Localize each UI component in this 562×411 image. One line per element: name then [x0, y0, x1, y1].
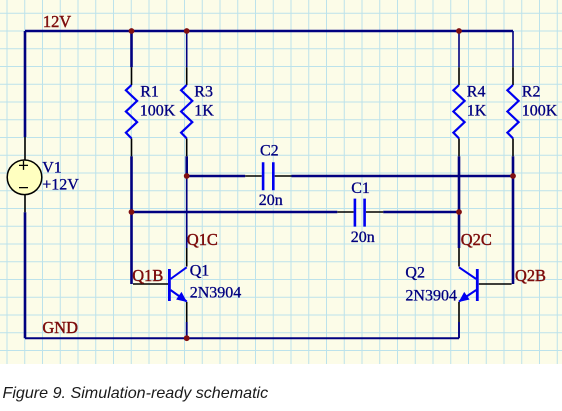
svg-text:2N3904: 2N3904 — [190, 285, 242, 302]
svg-text:R3: R3 — [194, 84, 213, 101]
svg-text:C1: C1 — [351, 180, 370, 197]
svg-text:100K: 100K — [522, 102, 558, 119]
svg-text:+12V: +12V — [42, 176, 79, 193]
svg-text:Figure 9. Simulation-ready sch: Figure 9. Simulation-ready schematic — [3, 384, 269, 402]
svg-text:R4: R4 — [467, 84, 486, 101]
svg-text:GND: GND — [42, 318, 78, 337]
svg-text:R1: R1 — [140, 84, 159, 101]
svg-text:2N3904: 2N3904 — [405, 287, 457, 304]
svg-text:Q2C: Q2C — [461, 230, 492, 249]
svg-text:Q2B: Q2B — [515, 266, 546, 285]
svg-text:100K: 100K — [140, 102, 176, 119]
svg-text:C2: C2 — [260, 142, 279, 159]
svg-text:1K: 1K — [194, 102, 214, 119]
svg-text:Q1C: Q1C — [187, 230, 218, 249]
svg-text:Q1B: Q1B — [132, 266, 163, 285]
svg-text:Q1: Q1 — [190, 263, 210, 280]
svg-text:20n: 20n — [259, 192, 283, 209]
svg-text:1K: 1K — [467, 102, 487, 119]
svg-text:R2: R2 — [522, 84, 541, 101]
svg-text:12V: 12V — [43, 12, 71, 31]
svg-text:V1: V1 — [42, 160, 62, 177]
svg-text:Q2: Q2 — [405, 265, 425, 282]
svg-text:20n: 20n — [351, 229, 375, 246]
